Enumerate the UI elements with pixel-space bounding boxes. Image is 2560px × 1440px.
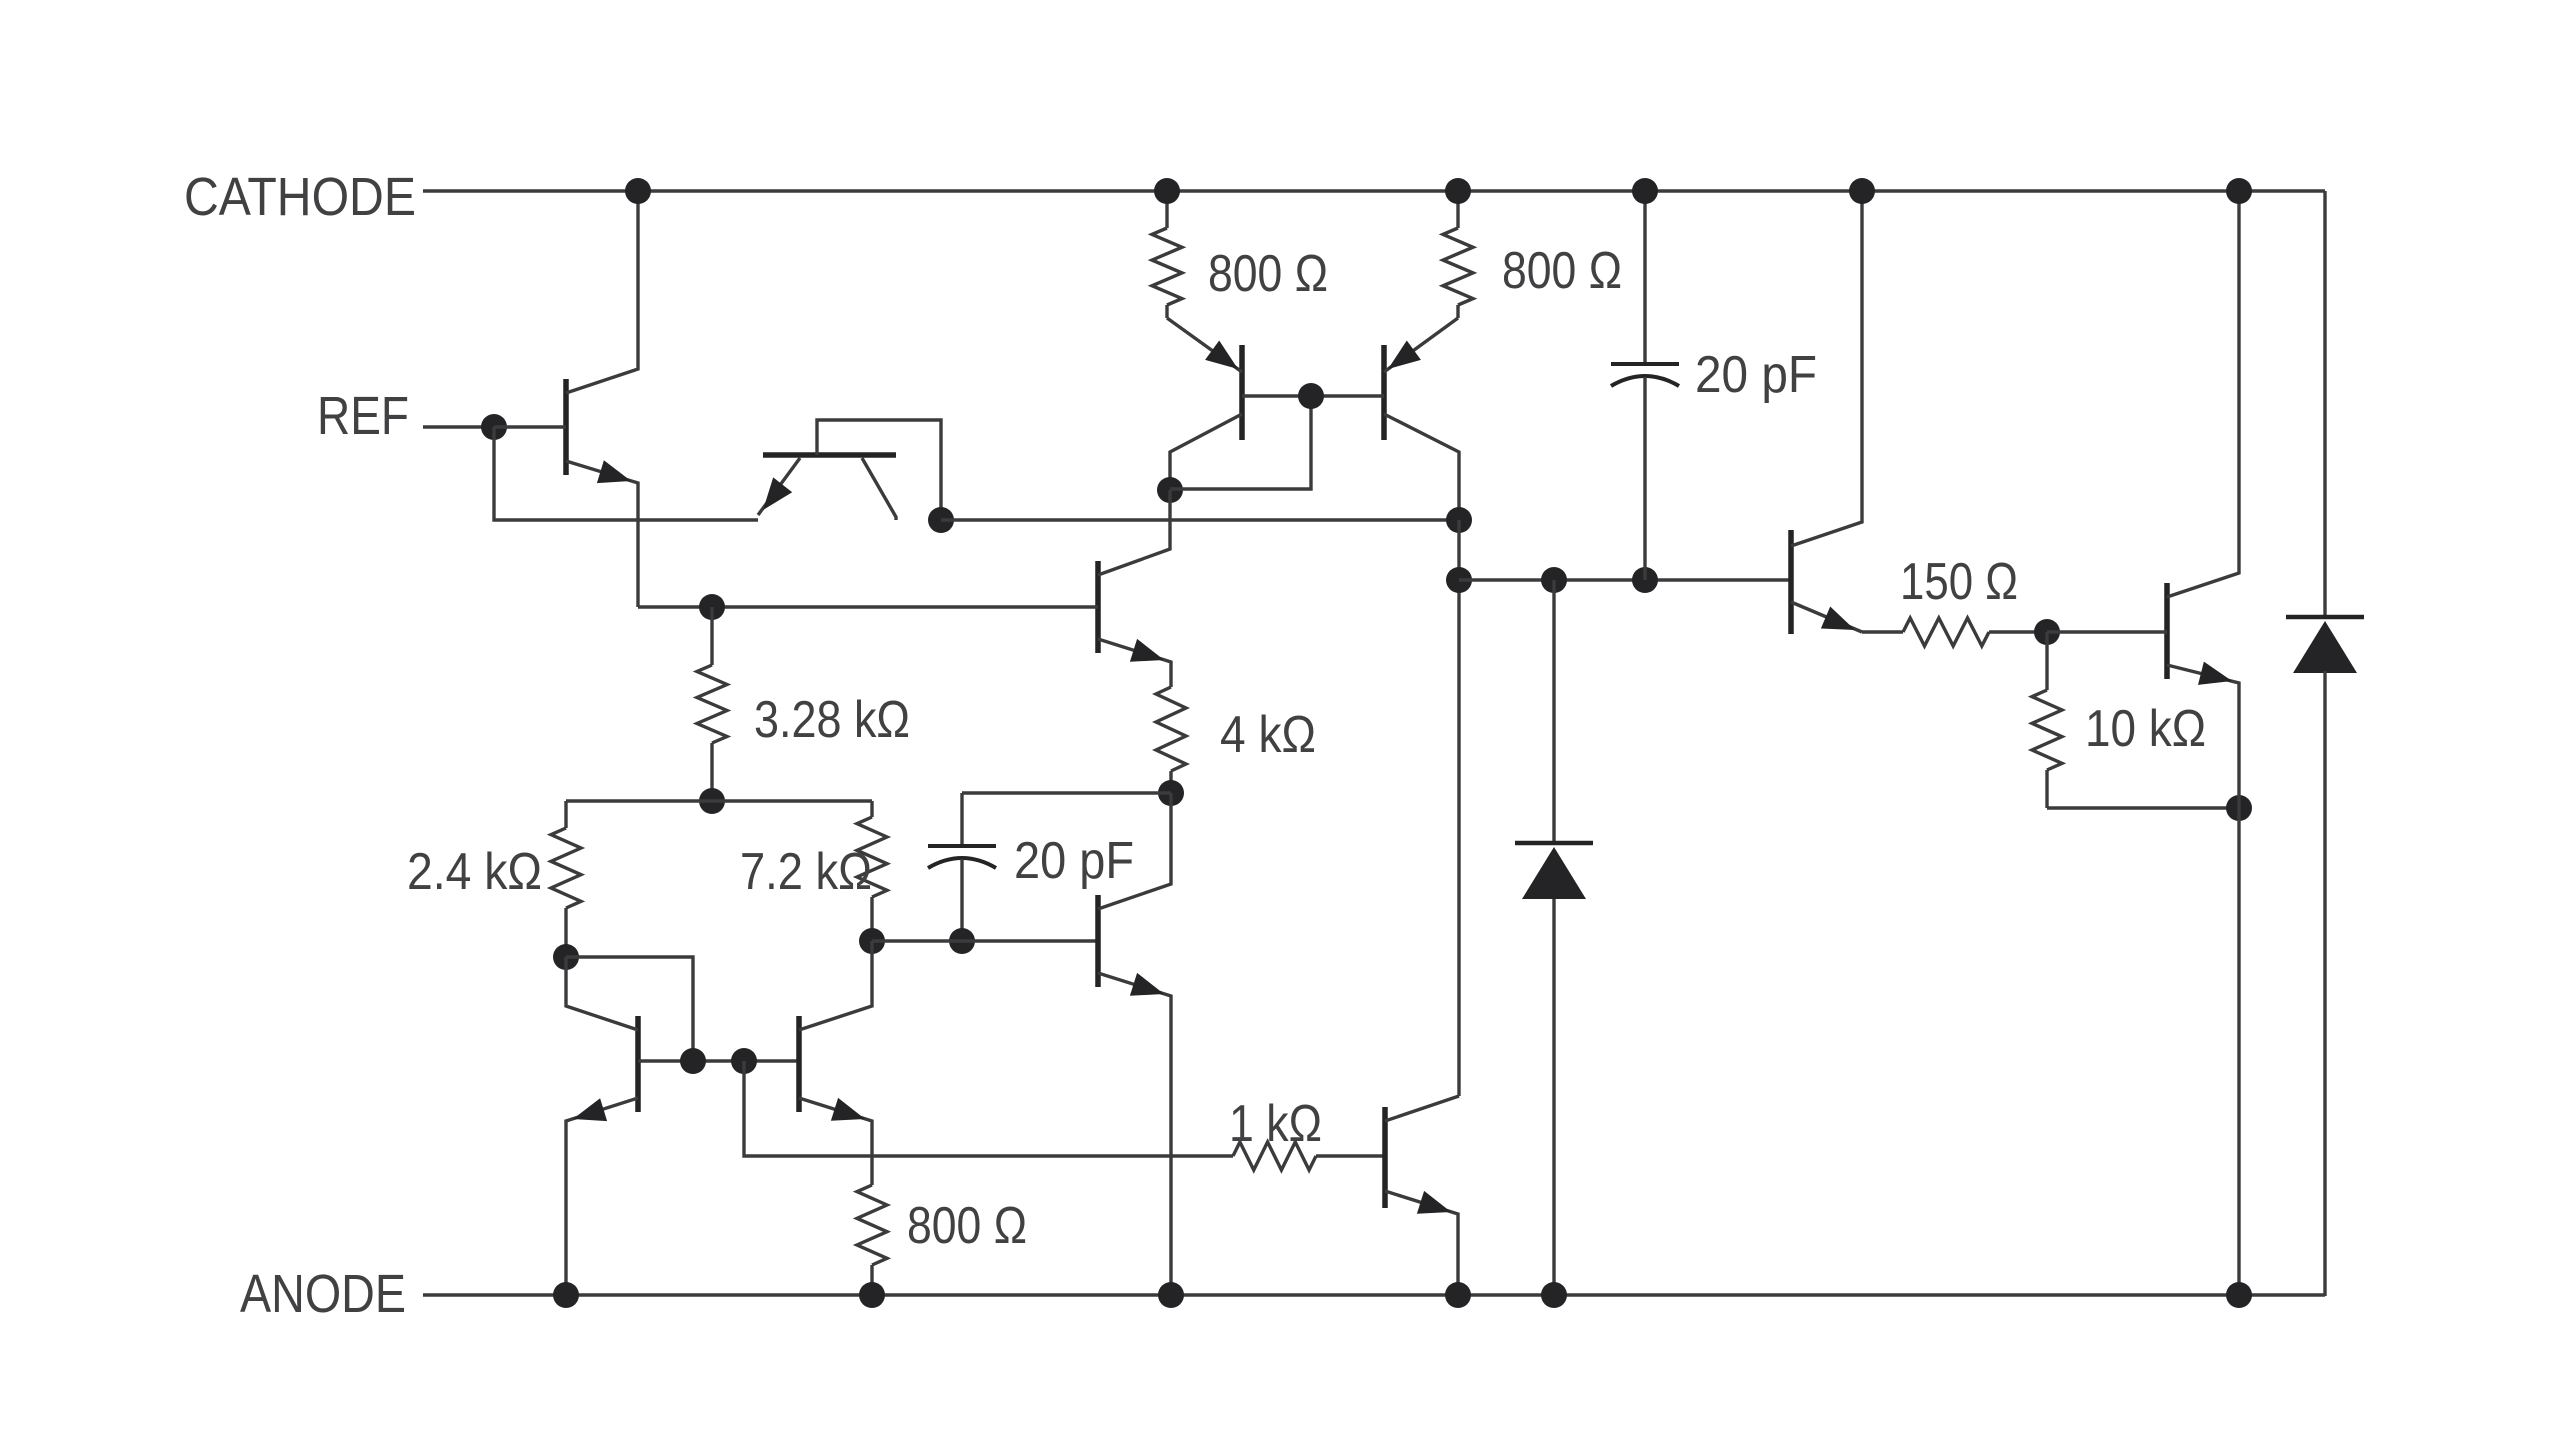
junction: R1 at cathode rail (1154, 178, 1180, 204)
junction: Q9 emitter at ANODE rail (1445, 1282, 1471, 1308)
transistor Q4 (PNP mirror right) (1381, 345, 1387, 440)
junction: Q7 base tie (680, 1048, 706, 1074)
resistor R6 7.2 kohm (870, 801, 873, 817)
junction: C2 bottom / Q6 base bus (949, 928, 975, 954)
wire: Q2 collector bus to Q4 collector (941, 518, 1459, 521)
transistor Q2 (lateral PNP, diode-connected) (763, 452, 896, 458)
svg-text:20 pF: 20 pF (1014, 832, 1134, 890)
transistor Q6 (center lower NPN) (1095, 895, 1101, 987)
junction: Q1 collector at cathode rail (625, 178, 651, 204)
junction: mirror base to R8 (731, 1048, 757, 1074)
junction: R6 bottom / Q8 collector (859, 928, 885, 954)
resistor R5 2.4 kohm (564, 801, 567, 828)
svg-text:ANODE: ANODE (240, 1264, 406, 1324)
transistor Q7 (bottom mirror left, diode-connected) (635, 1016, 641, 1112)
resistor R4 4 kohm (Q5 emitter) (1156, 687, 1186, 771)
transistor Q1 (input NPN, base at REF) (563, 379, 569, 475)
wire: long vertical from Q4 collector to Q9 collector (1457, 520, 1460, 1096)
capacitor C1 20 pF (upper right) (1643, 191, 1646, 364)
wire: PNP mirror base tie (1242, 394, 1384, 397)
junction: Q4 collector node (1446, 507, 1472, 533)
svg-text:4 kΩ: 4 kΩ (1220, 706, 1316, 764)
svg-text:800 Ω: 800 Ω (907, 1197, 1027, 1255)
resistor R7 800 ohm (Q8 emitter) (857, 1185, 887, 1265)
junction: Q2 collector/base node (928, 507, 954, 533)
junction: R7 at ANODE rail (859, 1282, 885, 1308)
diode D1 (middle clamp) (1552, 580, 1555, 843)
transistor Q5 (center NPN gain stage) (1095, 561, 1101, 653)
wire: ANODE rail (423, 1293, 2325, 1296)
wire: REF to Q2 emitter (494, 427, 758, 520)
wire: mirror base to R8 (744, 1061, 1233, 1156)
wire: Q8 collector to Q6 base (872, 939, 1098, 942)
junction: Q6 emitter at ANODE rail (1158, 1282, 1184, 1308)
junction: REF node (481, 414, 507, 440)
svg-text:800 Ω: 800 Ω (1502, 242, 1622, 300)
junction: R10 at Q11 emitter (2226, 795, 2252, 821)
svg-text:CATHODE: CATHODE (184, 167, 416, 227)
junction: Q11 collector at cathode rail (2226, 178, 2252, 204)
wire: CATHODE rail (423, 189, 2325, 192)
junction: compensation bus left (1446, 567, 1472, 593)
junction: R9 / R10 / Q11 base (2034, 619, 2060, 645)
wire: compensation bus to Q10 base (1459, 578, 1791, 581)
svg-text:20 pF: 20 pF (1695, 346, 1817, 404)
svg-text:3.28 kΩ: 3.28 kΩ (754, 691, 910, 749)
junction: Q11 emitter at ANODE rail (2226, 1282, 2252, 1308)
wire: divider top rail (566, 799, 872, 802)
svg-text:2.4 kΩ: 2.4 kΩ (407, 843, 542, 901)
svg-text:REF: REF (317, 386, 409, 446)
svg-text:10 kΩ: 10 kΩ (2085, 700, 2206, 758)
wire: Q1 emitter bus to Q5 base (638, 605, 1098, 608)
junction: 3.28k top (699, 594, 725, 620)
capacitor C2 20 pF (center) (960, 793, 963, 846)
junction: D1 top (1541, 567, 1567, 593)
wire: right edge drop from cathode rail to D2 (2323, 191, 2326, 617)
junction: Q3 collector tie (1157, 477, 1183, 503)
svg-text:800 Ω: 800 Ω (1208, 245, 1328, 303)
resistor R1 800 ohm (upper left) (1165, 191, 1168, 228)
junction: D1 anode at ANODE rail (1541, 1282, 1567, 1308)
diode D2 (output clamp, right edge) (2286, 615, 2364, 620)
resistor R8 1 kohm (1233, 1142, 1316, 1170)
junction: Q7 emitter at ANODE rail (553, 1282, 579, 1308)
svg-text:1 kΩ: 1 kΩ (1229, 1095, 1322, 1153)
junction: C1 at cathode rail (1632, 178, 1658, 204)
resistor R3 3.28 kohm (710, 607, 713, 665)
junction: C1 bottom (1632, 567, 1658, 593)
resistor R9 150 ohm (1862, 630, 1903, 633)
wire: REF lead (423, 425, 494, 428)
transistor Q10 (driver NPN) (1788, 530, 1794, 634)
junction: R3 bottom / divider top (699, 788, 725, 814)
junction: PNP mirror base (1298, 383, 1324, 409)
wire: bottom mirror base (638, 1059, 799, 1062)
junction: R5 bottom / Q7 collector (553, 944, 579, 970)
svg-text:7.2 kΩ: 7.2 kΩ (740, 843, 872, 901)
transistor Q3 (PNP mirror left) (1239, 345, 1245, 440)
resistor R10 10 kohm (2045, 632, 2048, 690)
svg-text:150 Ω: 150 Ω (1900, 553, 2018, 611)
resistor R2 800 ohm (upper right) (1456, 191, 1459, 228)
wire: D2 anode to ANODE rail (2323, 671, 2326, 1296)
wire: Q7 collector tie to base (566, 957, 693, 1061)
junction: R2 at cathode rail (1445, 178, 1471, 204)
junction: Q10 collector at cathode rail (1849, 178, 1875, 204)
transistor Q11 (output NPN) (2164, 583, 2170, 679)
transistor Q9 (output pull-down NPN) (1382, 1107, 1388, 1208)
transistor Q8 (bottom mirror right) (796, 1016, 802, 1112)
junction: R4 bottom / Q6 collector (1158, 780, 1184, 806)
